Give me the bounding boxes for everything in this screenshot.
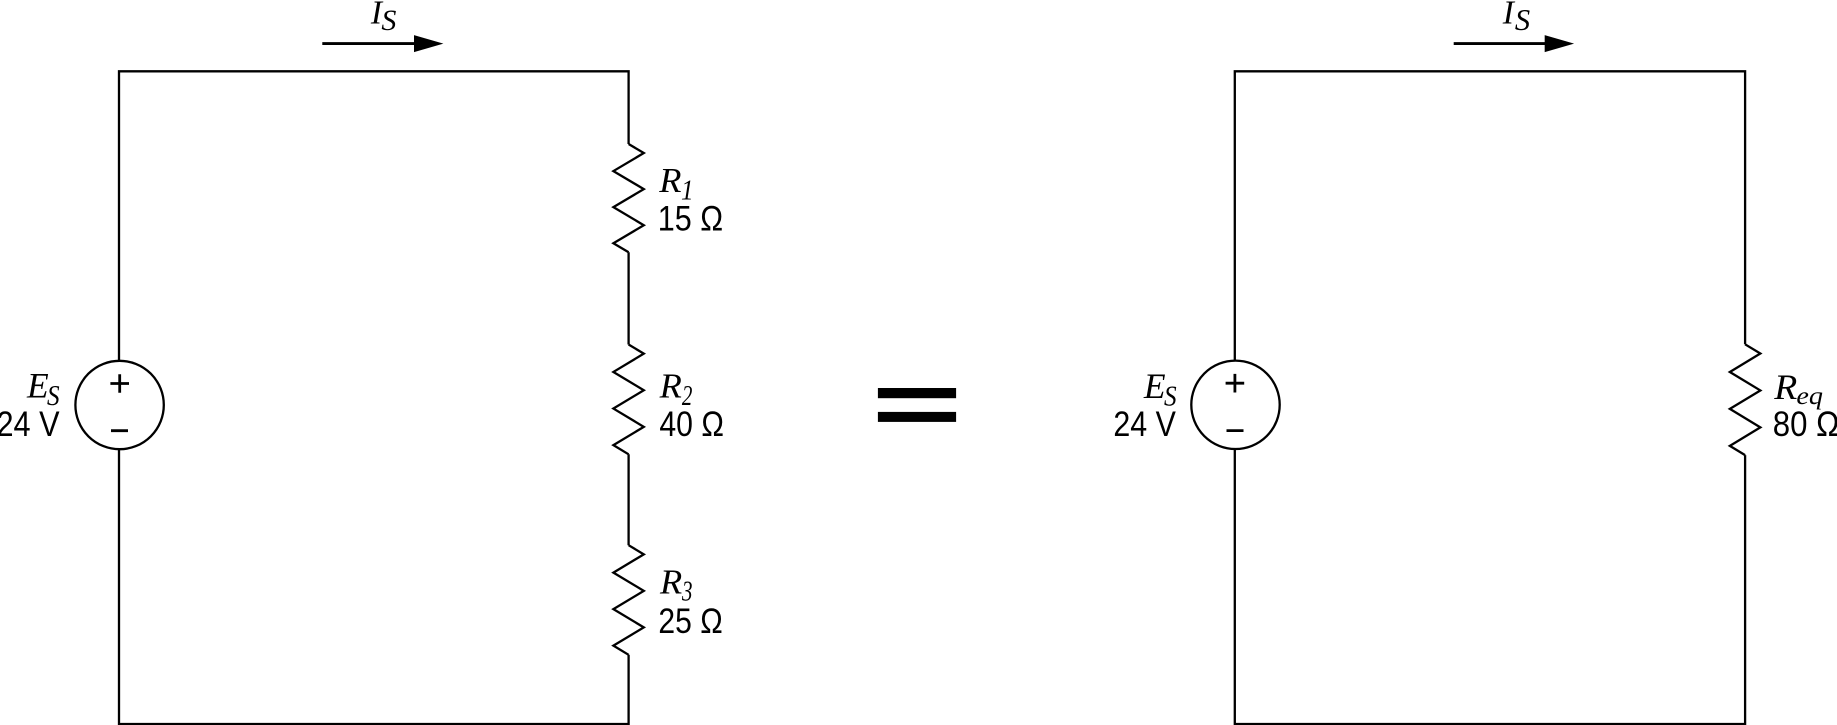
svg-text:S: S xyxy=(1515,3,1530,37)
svg-text:S: S xyxy=(381,4,396,37)
svg-text:25 Ω: 25 Ω xyxy=(658,602,722,641)
svg-text:24 V: 24 V xyxy=(1113,405,1176,444)
svg-text:R: R xyxy=(1773,367,1797,407)
svg-text:I: I xyxy=(1502,0,1516,31)
svg-text:40 Ω: 40 Ω xyxy=(659,405,724,444)
svg-text:24 V: 24 V xyxy=(0,405,60,444)
svg-text:R: R xyxy=(659,367,682,406)
svg-text:R: R xyxy=(658,161,681,200)
svg-text:R: R xyxy=(659,563,682,602)
svg-text:E: E xyxy=(26,366,49,406)
svg-text:E: E xyxy=(1143,366,1166,406)
svg-text:15 Ω: 15 Ω xyxy=(658,199,723,238)
svg-text:80 Ω: 80 Ω xyxy=(1773,405,1837,444)
